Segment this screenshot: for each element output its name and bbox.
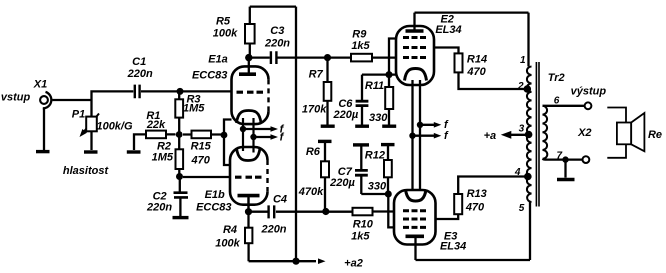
- svg-text:5: 5: [519, 203, 525, 214]
- svg-text:470k: 470k: [298, 186, 324, 198]
- svg-text:EL34: EL34: [435, 24, 461, 36]
- svg-text:170k: 170k: [302, 104, 327, 116]
- svg-text:R12: R12: [365, 150, 385, 162]
- svg-text:100k: 100k: [213, 28, 238, 40]
- svg-text:100k: 100k: [215, 237, 240, 249]
- svg-text:220n: 220n: [146, 201, 172, 213]
- svg-text:C6: C6: [338, 98, 353, 110]
- svg-text:+a: +a: [484, 130, 497, 142]
- svg-text:6: 6: [554, 95, 560, 106]
- svg-text:22k: 22k: [146, 119, 166, 131]
- svg-text:470: 470: [465, 201, 485, 213]
- svg-text:E1a: E1a: [208, 53, 228, 65]
- svg-text:7: 7: [557, 150, 563, 161]
- svg-text:220n: 220n: [127, 68, 153, 80]
- svg-text:vstup: vstup: [1, 92, 31, 104]
- svg-text:+a2: +a2: [344, 257, 363, 269]
- svg-text:X2: X2: [577, 127, 591, 139]
- svg-text:R5: R5: [216, 16, 231, 28]
- svg-text:R11: R11: [365, 80, 384, 92]
- svg-text:R4: R4: [223, 224, 237, 236]
- svg-text:R7: R7: [309, 69, 324, 81]
- svg-text:P1: P1: [72, 109, 85, 121]
- svg-text:C4: C4: [273, 194, 287, 206]
- svg-text:R15: R15: [191, 141, 212, 153]
- svg-text:hlasitost: hlasitost: [63, 165, 110, 177]
- svg-text:ECC83: ECC83: [196, 201, 231, 213]
- svg-text:X1: X1: [33, 79, 47, 91]
- svg-text:470: 470: [466, 66, 486, 78]
- svg-text:220µ: 220µ: [333, 109, 359, 121]
- svg-text:4: 4: [514, 167, 521, 178]
- svg-text:330: 330: [368, 180, 387, 192]
- svg-text:R6: R6: [306, 146, 321, 158]
- svg-text:C3: C3: [270, 25, 284, 37]
- svg-text:výstup: výstup: [571, 86, 607, 98]
- svg-text:R10: R10: [353, 218, 374, 230]
- svg-text:Tr2: Tr2: [548, 72, 565, 84]
- svg-text:C1: C1: [132, 56, 146, 68]
- svg-text:100k/G: 100k/G: [96, 121, 133, 133]
- svg-text:470: 470: [191, 155, 211, 167]
- svg-text:R13: R13: [467, 188, 487, 200]
- svg-text:1: 1: [520, 55, 526, 66]
- svg-text:1M5: 1M5: [183, 103, 205, 115]
- svg-text:330: 330: [369, 112, 388, 124]
- svg-text:220n: 220n: [264, 37, 290, 49]
- svg-text:R14: R14: [467, 54, 487, 66]
- svg-text:R9: R9: [352, 28, 367, 40]
- svg-text:1k5: 1k5: [351, 40, 370, 52]
- svg-text:EL34: EL34: [440, 241, 466, 253]
- svg-text:2: 2: [517, 81, 524, 92]
- svg-text:220µ: 220µ: [329, 177, 355, 189]
- svg-text:220n: 220n: [260, 224, 286, 236]
- svg-text:E1b: E1b: [205, 189, 225, 201]
- svg-text:ECC83: ECC83: [192, 69, 227, 81]
- svg-text:1k5: 1k5: [351, 230, 370, 242]
- svg-text:3: 3: [519, 123, 525, 134]
- svg-text:1M5: 1M5: [152, 152, 174, 164]
- svg-text:Re: Re: [648, 129, 662, 141]
